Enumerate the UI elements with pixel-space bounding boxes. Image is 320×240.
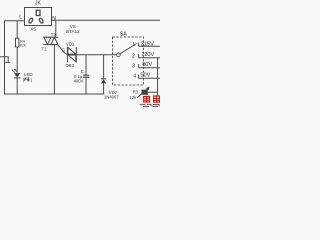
svg-text:1N4007: 1N4007 bbox=[104, 95, 119, 100]
svg-text:120V: 120V bbox=[141, 52, 154, 58]
svg-text:G: G bbox=[62, 48, 66, 53]
svg-text:T1: T1 bbox=[41, 46, 47, 51]
svg-text:N: N bbox=[52, 16, 56, 22]
svg-text:400V: 400V bbox=[74, 79, 84, 84]
svg-text:DB3: DB3 bbox=[65, 63, 74, 68]
svg-text:215V: 215V bbox=[141, 42, 154, 48]
svg-text:80V: 80V bbox=[142, 62, 152, 68]
svg-text:3: 3 bbox=[132, 64, 135, 70]
svg-text:L: L bbox=[19, 15, 22, 21]
svg-text:BTA12: BTA12 bbox=[66, 29, 80, 34]
svg-text:): ) bbox=[31, 77, 33, 82]
svg-text:4: 4 bbox=[133, 73, 136, 79]
svg-text:50V: 50V bbox=[140, 72, 150, 78]
svg-text:T2: T2 bbox=[51, 32, 57, 37]
svg-text:1: 1 bbox=[132, 42, 135, 48]
svg-text:SA: SA bbox=[120, 32, 127, 38]
svg-text:VD1: VD1 bbox=[66, 42, 75, 47]
svg-text:2: 2 bbox=[132, 54, 135, 60]
svg-text:JK: JK bbox=[35, 1, 42, 7]
svg-text:XS: XS bbox=[30, 26, 36, 31]
svg-text:12k: 12k bbox=[129, 95, 137, 100]
svg-text:82k: 82k bbox=[20, 43, 26, 47]
